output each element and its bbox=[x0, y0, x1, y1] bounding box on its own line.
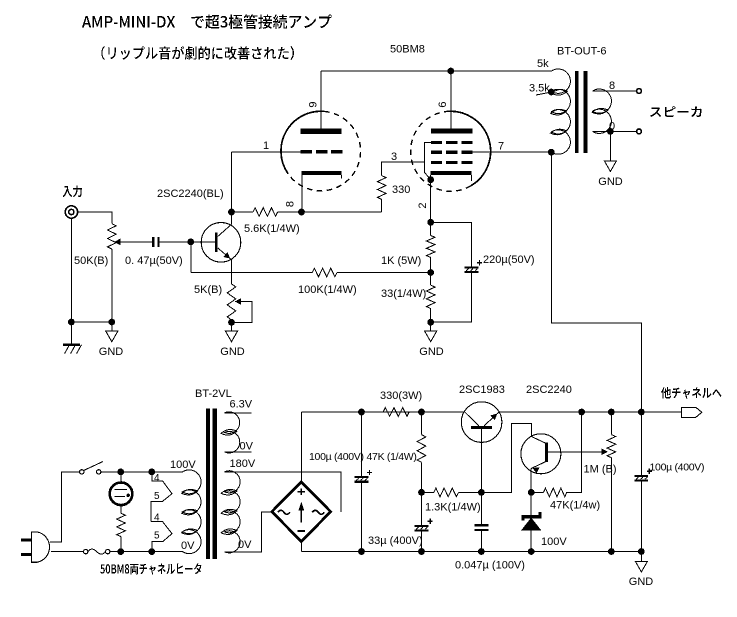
wire plate rail bbox=[321, 70, 552, 72]
svg-text:GND: GND bbox=[629, 576, 654, 588]
PT 6.3V lead top bbox=[225, 412, 252, 414]
PT 6.3V leaf bbox=[221, 429, 238, 437]
resistor R6 33(1/4W) bbox=[426, 285, 435, 308]
node OPT secondary gnd bbox=[607, 128, 614, 135]
wire fuse to transformer bbox=[110, 551, 183, 553]
svg-text:8: 8 bbox=[285, 201, 297, 207]
capacitor C4 33u(400V) bbox=[421, 492, 423, 525]
svg-text:0V: 0V bbox=[181, 540, 195, 552]
PT core bbox=[206, 409, 210, 559]
tube V1b plate bar bbox=[431, 129, 473, 134]
wire feedback from base node bbox=[190, 242, 192, 273]
svg-text:0V: 0V bbox=[238, 539, 252, 551]
tube V1a cathode lead pin8 bbox=[301, 175, 303, 212]
capacitor C5 0.047u(100V) bbox=[480, 492, 482, 524]
tube V1a envelope solid arc bbox=[281, 111, 324, 174]
ground GND (supply) bbox=[640, 552, 642, 562]
wire ground rail bbox=[301, 551, 641, 553]
svg-text:3: 3 bbox=[391, 151, 397, 163]
svg-text:7: 7 bbox=[498, 141, 504, 153]
svg-text:100V: 100V bbox=[170, 459, 196, 471]
tube V1a plate lead pin9 bbox=[320, 71, 322, 129]
tube V1b grid row g1 bbox=[431, 141, 442, 144]
OPT secondary lead 8ohm bbox=[593, 90, 637, 92]
bridge arrow bbox=[300, 505, 302, 523]
svg-text:BT-OUT-6: BT-OUT-6 bbox=[557, 46, 607, 58]
node pin2/220u top bbox=[427, 219, 434, 226]
tube V1a cathode bar bbox=[302, 171, 342, 175]
capacitor C1 0.47u coupling plates bbox=[152, 237, 154, 247]
svg-text:2: 2 bbox=[417, 202, 429, 208]
resistor R8 330(3W) bbox=[383, 408, 409, 417]
tube V1b cathode lead pin2 bbox=[430, 175, 432, 223]
wire Q1 collector node rail bbox=[232, 211, 254, 213]
svg-text:5: 5 bbox=[154, 491, 160, 502]
potentiometer VR3 1M(B) bbox=[610, 412, 612, 435]
AC plug body bbox=[32, 532, 50, 562]
ground GND (cathode) bbox=[430, 322, 432, 331]
OPT secondary leaf bbox=[592, 107, 609, 115]
tube V1a plate bar bbox=[301, 129, 342, 134]
node R11 top bbox=[578, 409, 585, 416]
svg-text:5K(B): 5K(B) bbox=[194, 284, 222, 296]
connector to other channel bbox=[681, 407, 701, 417]
node input gnd right bbox=[108, 319, 115, 326]
node Q3 emitter bbox=[528, 489, 535, 496]
PT primary leaf 1 bbox=[181, 488, 198, 496]
svg-text:33(1/4W): 33(1/4W) bbox=[381, 288, 426, 300]
svg-text:47K (1/4W): 47K (1/4W) bbox=[367, 451, 417, 463]
capacitor C2 220u(50V) body bbox=[465, 266, 479, 268]
tube V1b grid bracket bbox=[425, 143, 431, 180]
svg-text:100K(1/4W): 100K(1/4W) bbox=[298, 284, 357, 296]
resistor R11 47K(1/4w) bbox=[531, 491, 543, 493]
node Q2 base bbox=[478, 489, 485, 496]
capacitor C2 220u(50V) loop bbox=[431, 222, 472, 266]
PT 180V lead top bbox=[225, 472, 342, 512]
capacitor C6 100u(400V) out bbox=[640, 412, 642, 475]
switch SW1 bbox=[80, 470, 84, 474]
Q3 base bar bbox=[545, 443, 548, 462]
svg-text:100V: 100V bbox=[541, 536, 567, 548]
Q3 emitter lead bbox=[531, 461, 546, 468]
node VR2 bottom bbox=[228, 319, 235, 326]
OPT secondary winding bbox=[593, 89, 612, 133]
tube V1b envelope solid arc bbox=[447, 111, 490, 186]
OPT primary winding bbox=[552, 69, 571, 154]
svg-text:50K(B): 50K(B) bbox=[74, 255, 108, 267]
svg-text:GND: GND bbox=[419, 346, 444, 358]
label: スピーカ bbox=[650, 106, 702, 117]
wire grid down to node bbox=[231, 152, 233, 212]
Q2 base lead bbox=[480, 429, 482, 493]
svg-text:6: 6 bbox=[437, 101, 449, 107]
wire R4 top to grid bbox=[382, 162, 425, 175]
svg-text:1.3K(1/4W): 1.3K(1/4W) bbox=[425, 502, 481, 514]
fuse F1 bbox=[84, 549, 88, 553]
transistor Q1 2SC2240(BL) circle bbox=[201, 223, 241, 263]
svg-text:BT-2VL: BT-2VL bbox=[195, 388, 232, 400]
svg-text:100µ (400V): 100µ (400V) bbox=[309, 451, 364, 463]
lamp resistor R7 bbox=[117, 513, 126, 536]
label: 入力 bbox=[63, 185, 82, 197]
label: （リップル音が劇的に改善された） bbox=[101, 46, 294, 60]
wire R7 to bottom bbox=[120, 537, 122, 552]
Q2 emitter lead bbox=[484, 412, 499, 426]
node cathode bottom bbox=[427, 319, 434, 326]
chassis ground symbol bbox=[70, 322, 72, 345]
ground GND (OPT) bbox=[609, 131, 611, 161]
svg-text:GND: GND bbox=[220, 346, 245, 358]
wire jack to pot top bbox=[78, 212, 112, 224]
resistor R5 1K(5W) bbox=[426, 236, 435, 258]
wire to other channel bbox=[641, 411, 681, 413]
svg-text:0V: 0V bbox=[240, 441, 254, 453]
tube V1b grid row g3 bbox=[431, 161, 442, 164]
svg-text:GND: GND bbox=[99, 346, 124, 358]
wire B+ rail left bbox=[301, 411, 465, 413]
AC plug prong 2 bbox=[21, 553, 32, 556]
node 330 out bbox=[418, 409, 425, 416]
wire R6 to bottom node bbox=[430, 309, 432, 323]
tube V1a envelope dashed arc bbox=[288, 111, 360, 190]
OPT primary leaf 1 bbox=[551, 89, 568, 97]
bridge ~ mark left bbox=[278, 510, 290, 514]
PT secondary 6.3V winding bbox=[225, 412, 240, 453]
label: 他チャネルヘ bbox=[661, 387, 721, 399]
node 100u in bbox=[358, 409, 365, 416]
svg-text:1: 1 bbox=[263, 140, 269, 152]
node heater bottom / 0V bbox=[148, 548, 155, 555]
ground GND (VR2) bbox=[231, 322, 233, 331]
OPT tap 3.5k bbox=[536, 92, 551, 95]
resistor R2 5.6K(1/4W) bbox=[253, 208, 278, 217]
potentiometer VR1 50K(B) bbox=[108, 224, 117, 249]
speaker terminal 0 bbox=[637, 129, 642, 134]
node input gnd left bbox=[68, 319, 75, 326]
Q1 collector lead bbox=[218, 212, 232, 237]
bridge rectifier D1 diamond bbox=[272, 482, 331, 541]
wire input ground bus bbox=[71, 321, 111, 323]
wire node to R6 bbox=[430, 273, 432, 286]
svg-text:2SC2240: 2SC2240 bbox=[526, 384, 572, 396]
wire plug hot bbox=[50, 472, 80, 542]
wire R5 to node bbox=[430, 257, 432, 272]
OPT primary leaf 3 bbox=[550, 128, 567, 136]
svg-text:GND: GND bbox=[598, 176, 623, 188]
transistor Q3 2SC2240 circle bbox=[521, 434, 561, 474]
wire OPT bottom to supply bbox=[551, 152, 641, 412]
Q2 collector lead bbox=[465, 412, 479, 426]
svg-text:50BM8: 50BM8 bbox=[390, 44, 425, 56]
node OPT primary bottom bbox=[548, 149, 555, 156]
svg-text:4: 4 bbox=[154, 513, 160, 524]
input jack J1 (RCA) bbox=[65, 206, 77, 218]
svg-text:220µ(50V): 220µ(50V) bbox=[483, 254, 535, 266]
svg-text:4: 4 bbox=[154, 473, 160, 484]
node tube1 cathode bbox=[298, 209, 305, 216]
svg-text:180V: 180V bbox=[230, 458, 256, 470]
wire feedback horizontal right bbox=[337, 272, 431, 274]
node zener gnd bbox=[528, 548, 535, 555]
pot VR1 wiper arrow bbox=[114, 239, 120, 246]
svg-text:6.3V: 6.3V bbox=[230, 399, 253, 411]
Q2 base bar bbox=[471, 426, 492, 429]
svg-text:1M (B): 1M (B) bbox=[584, 464, 617, 476]
bridge + mark bbox=[298, 491, 305, 493]
label: AMP-MINI-DX で超3極管接続アンプ bbox=[82, 14, 332, 28]
svg-text:330: 330 bbox=[392, 184, 410, 196]
AC plug prong 1 bbox=[21, 539, 32, 542]
svg-text:1K (5W): 1K (5W) bbox=[381, 255, 421, 267]
node R9 bottom bbox=[418, 489, 425, 496]
label: 50BM8両チャネルヒータ bbox=[100, 563, 201, 575]
pilot lamp NE1 bbox=[110, 483, 133, 506]
OPT primary leaf 2 bbox=[550, 108, 567, 116]
wire plug neutral bbox=[51, 551, 84, 553]
Q1 emitter lead bbox=[218, 248, 232, 284]
node lamp top bbox=[117, 469, 124, 476]
transistor Q2 2SC1983 circle bbox=[461, 402, 502, 443]
capacitor C3 100u(400V) bbox=[361, 412, 363, 476]
wire bridge + up bbox=[300, 412, 302, 482]
PT 180V leaf 3 bbox=[221, 528, 238, 536]
node VR3 top bbox=[608, 409, 615, 416]
svg-text:100µ (400V): 100µ (400V) bbox=[650, 462, 705, 474]
PT primary leaf 3 bbox=[181, 528, 198, 536]
wire rail middle bbox=[278, 211, 382, 213]
node C4 gnd bbox=[418, 548, 425, 555]
resistor R4 330 bbox=[377, 176, 386, 200]
bridge ~ mark right bbox=[312, 510, 324, 514]
PT 180V lead bottom bbox=[225, 512, 272, 552]
VR2 wiper arrow and loop bbox=[235, 298, 241, 305]
wire pot bottom bbox=[111, 249, 113, 322]
svg-text:9: 9 bbox=[308, 101, 320, 107]
PT secondary 180V winding bbox=[225, 471, 241, 553]
resistor R3 100K(1/4W) bbox=[312, 268, 337, 277]
Q3 collector lead bbox=[532, 437, 547, 444]
tube V1b envelope dashed arc bbox=[411, 111, 471, 191]
wire bridge - down bbox=[300, 541, 302, 551]
wire pin2 node to R5 bbox=[430, 222, 432, 235]
wire jack ground drop bbox=[70, 218, 72, 322]
heater chevron 1 bbox=[151, 472, 172, 522]
svg-text:3.5k: 3.5k bbox=[529, 83, 550, 95]
OPT core bbox=[575, 71, 579, 153]
svg-text:5k: 5k bbox=[537, 58, 549, 70]
PT primary leaf 2 bbox=[181, 508, 198, 516]
svg-text:47K(1/4w): 47K(1/4w) bbox=[550, 500, 600, 512]
svg-text:2SC2240(BL): 2SC2240(BL) bbox=[157, 188, 224, 200]
tube V1a grid lead pin1 bbox=[232, 151, 301, 153]
node rail left bbox=[228, 209, 235, 216]
wire rail to R4 bbox=[381, 199, 383, 212]
ground GND (input) bbox=[111, 322, 113, 331]
node cathode mid bbox=[427, 269, 434, 276]
node lamp bottom bbox=[117, 548, 124, 555]
tube V1b screen lead pin7 bbox=[473, 151, 552, 153]
tube V1b grid row g2 bbox=[431, 151, 442, 154]
wire C1 to Q1 base bbox=[160, 241, 215, 243]
wire Q2 base to Q3 collector bbox=[481, 423, 531, 492]
resistor R10 1.3K(1/4W) bbox=[434, 488, 459, 497]
zener D2 100V bbox=[530, 492, 532, 515]
PT primary winding bbox=[183, 470, 202, 554]
svg-text:8: 8 bbox=[609, 80, 615, 92]
heater chevron 2 bbox=[151, 522, 172, 552]
tube V1b cathode bar bbox=[430, 171, 471, 175]
node gnd rail end bbox=[638, 548, 645, 555]
wire feedback horizontal left bbox=[191, 272, 312, 274]
node C3 gnd bbox=[358, 548, 365, 555]
wire switch to transformer bbox=[101, 471, 183, 473]
bridge - mark bbox=[298, 530, 305, 532]
svg-text:2SC1983: 2SC1983 bbox=[459, 384, 505, 396]
svg-text:5: 5 bbox=[154, 531, 160, 542]
node Q1 base bbox=[187, 239, 194, 246]
svg-text:330(3W): 330(3W) bbox=[380, 390, 422, 402]
svg-text:33µ (400V): 33µ (400V) bbox=[368, 535, 423, 547]
PT 6.3V lead bottom bbox=[225, 451, 252, 453]
node V1b plate bbox=[447, 68, 454, 75]
node C5 gnd bbox=[478, 548, 485, 555]
node VR3 bottom bbox=[608, 548, 615, 555]
Q1 base bar bbox=[215, 232, 218, 251]
PT 180V leaf 1 bbox=[221, 488, 238, 496]
node cathode/suppressor join bbox=[427, 176, 434, 183]
tube V1b plate lead pin6 bbox=[450, 71, 452, 129]
PT 180V leaf 2 bbox=[221, 508, 238, 516]
svg-text:0. 47µ(50V): 0. 47µ(50V) bbox=[125, 255, 183, 267]
tube V1a grid dashes bbox=[301, 150, 312, 153]
Q3 base lead to pot wiper bbox=[548, 451, 606, 453]
OPT secondary lead 0ohm bbox=[593, 130, 637, 132]
svg-text:5.6K(1/4W): 5.6K(1/4W) bbox=[244, 223, 300, 235]
speaker terminal 8 bbox=[637, 89, 642, 94]
node B+ out bbox=[638, 409, 645, 416]
potentiometer VR2 5K(B) bbox=[227, 284, 236, 320]
node heater top / 100V bbox=[148, 469, 155, 476]
resistor R9 47K(1/4W) vertical bbox=[421, 412, 423, 435]
wire B+ rail right bbox=[499, 411, 682, 413]
svg-text:0.047µ (100V): 0.047µ (100V) bbox=[455, 560, 525, 572]
